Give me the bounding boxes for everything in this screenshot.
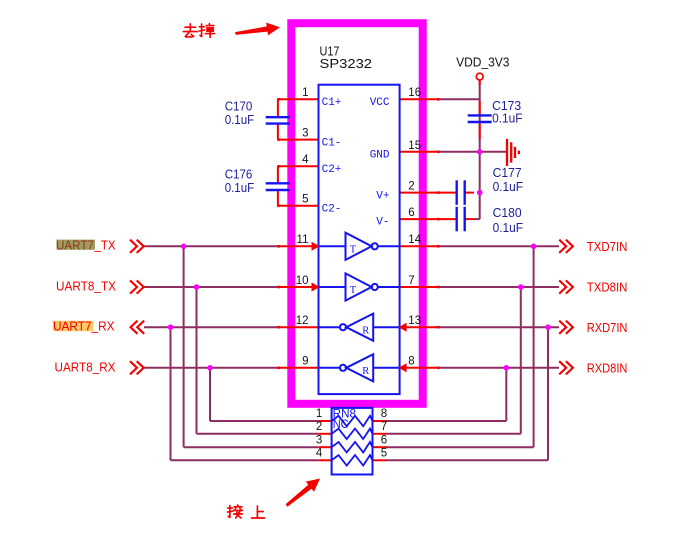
svg-text:GND: GND <box>370 150 390 162</box>
svg-text:TXD7IN: TXD7IN <box>587 240 628 254</box>
svg-text:2: 2 <box>408 180 414 192</box>
svg-text:0.1uF: 0.1uF <box>225 113 255 127</box>
svg-text:3: 3 <box>316 434 322 446</box>
svg-text:0.1uF: 0.1uF <box>493 180 524 194</box>
svg-text:R: R <box>362 326 369 337</box>
svg-text:VDD_3V3: VDD_3V3 <box>456 56 509 70</box>
svg-text:14: 14 <box>408 234 421 246</box>
svg-text:12: 12 <box>296 315 309 327</box>
svg-text:R: R <box>362 366 369 377</box>
svg-text:6: 6 <box>408 207 414 219</box>
svg-text:UART8_TX: UART8_TX <box>56 280 117 294</box>
svg-text:RXD7IN: RXD7IN <box>587 321 628 335</box>
svg-text:4: 4 <box>302 154 309 166</box>
svg-text:C176: C176 <box>225 168 253 182</box>
svg-text:10: 10 <box>296 275 309 287</box>
svg-text:5: 5 <box>302 194 308 206</box>
svg-text:NC: NC <box>333 419 349 431</box>
svg-text:T: T <box>350 245 357 256</box>
svg-text:0.1uF: 0.1uF <box>493 221 524 235</box>
svg-text:7: 7 <box>408 275 414 287</box>
svg-text:C2+: C2+ <box>322 164 342 176</box>
svg-text:2: 2 <box>316 421 322 433</box>
svg-text:C2-: C2- <box>322 204 342 216</box>
svg-text:1: 1 <box>302 87 308 99</box>
svg-text:V-: V- <box>376 217 389 229</box>
svg-text:9: 9 <box>302 356 308 368</box>
svg-text:C177: C177 <box>493 166 522 180</box>
svg-text:RXD8IN: RXD8IN <box>587 362 628 376</box>
svg-text:UART7_RX: UART7_RX <box>53 320 115 334</box>
svg-text:C1+: C1+ <box>322 97 342 109</box>
svg-text:UART8_RX: UART8_RX <box>55 360 117 374</box>
svg-text:15: 15 <box>408 140 421 152</box>
svg-text:C170: C170 <box>225 99 253 113</box>
svg-text:6: 6 <box>381 434 387 446</box>
svg-text:8: 8 <box>381 408 387 420</box>
svg-text:1: 1 <box>316 408 322 420</box>
svg-text:11: 11 <box>297 234 309 246</box>
svg-text:TXD8IN: TXD8IN <box>587 281 628 295</box>
svg-text:_TX: _TX <box>94 239 117 253</box>
svg-text:4: 4 <box>316 448 323 460</box>
svg-text:0.1uF: 0.1uF <box>225 181 255 195</box>
svg-text:UART7: UART7 <box>56 239 94 253</box>
svg-text:SP3232: SP3232 <box>320 57 373 71</box>
svg-text:7: 7 <box>381 421 387 433</box>
svg-text:8: 8 <box>408 356 414 368</box>
svg-text:5: 5 <box>381 448 387 460</box>
svg-text:V+: V+ <box>376 190 389 202</box>
svg-text:C180: C180 <box>493 206 522 220</box>
svg-text:VCC: VCC <box>370 97 390 109</box>
svg-text:T: T <box>350 285 357 296</box>
svg-text:0.1uF: 0.1uF <box>492 111 523 125</box>
svg-text:3: 3 <box>302 127 308 139</box>
svg-text:C1-: C1- <box>322 137 342 149</box>
svg-text:13: 13 <box>408 315 421 327</box>
svg-text:16: 16 <box>408 87 421 99</box>
